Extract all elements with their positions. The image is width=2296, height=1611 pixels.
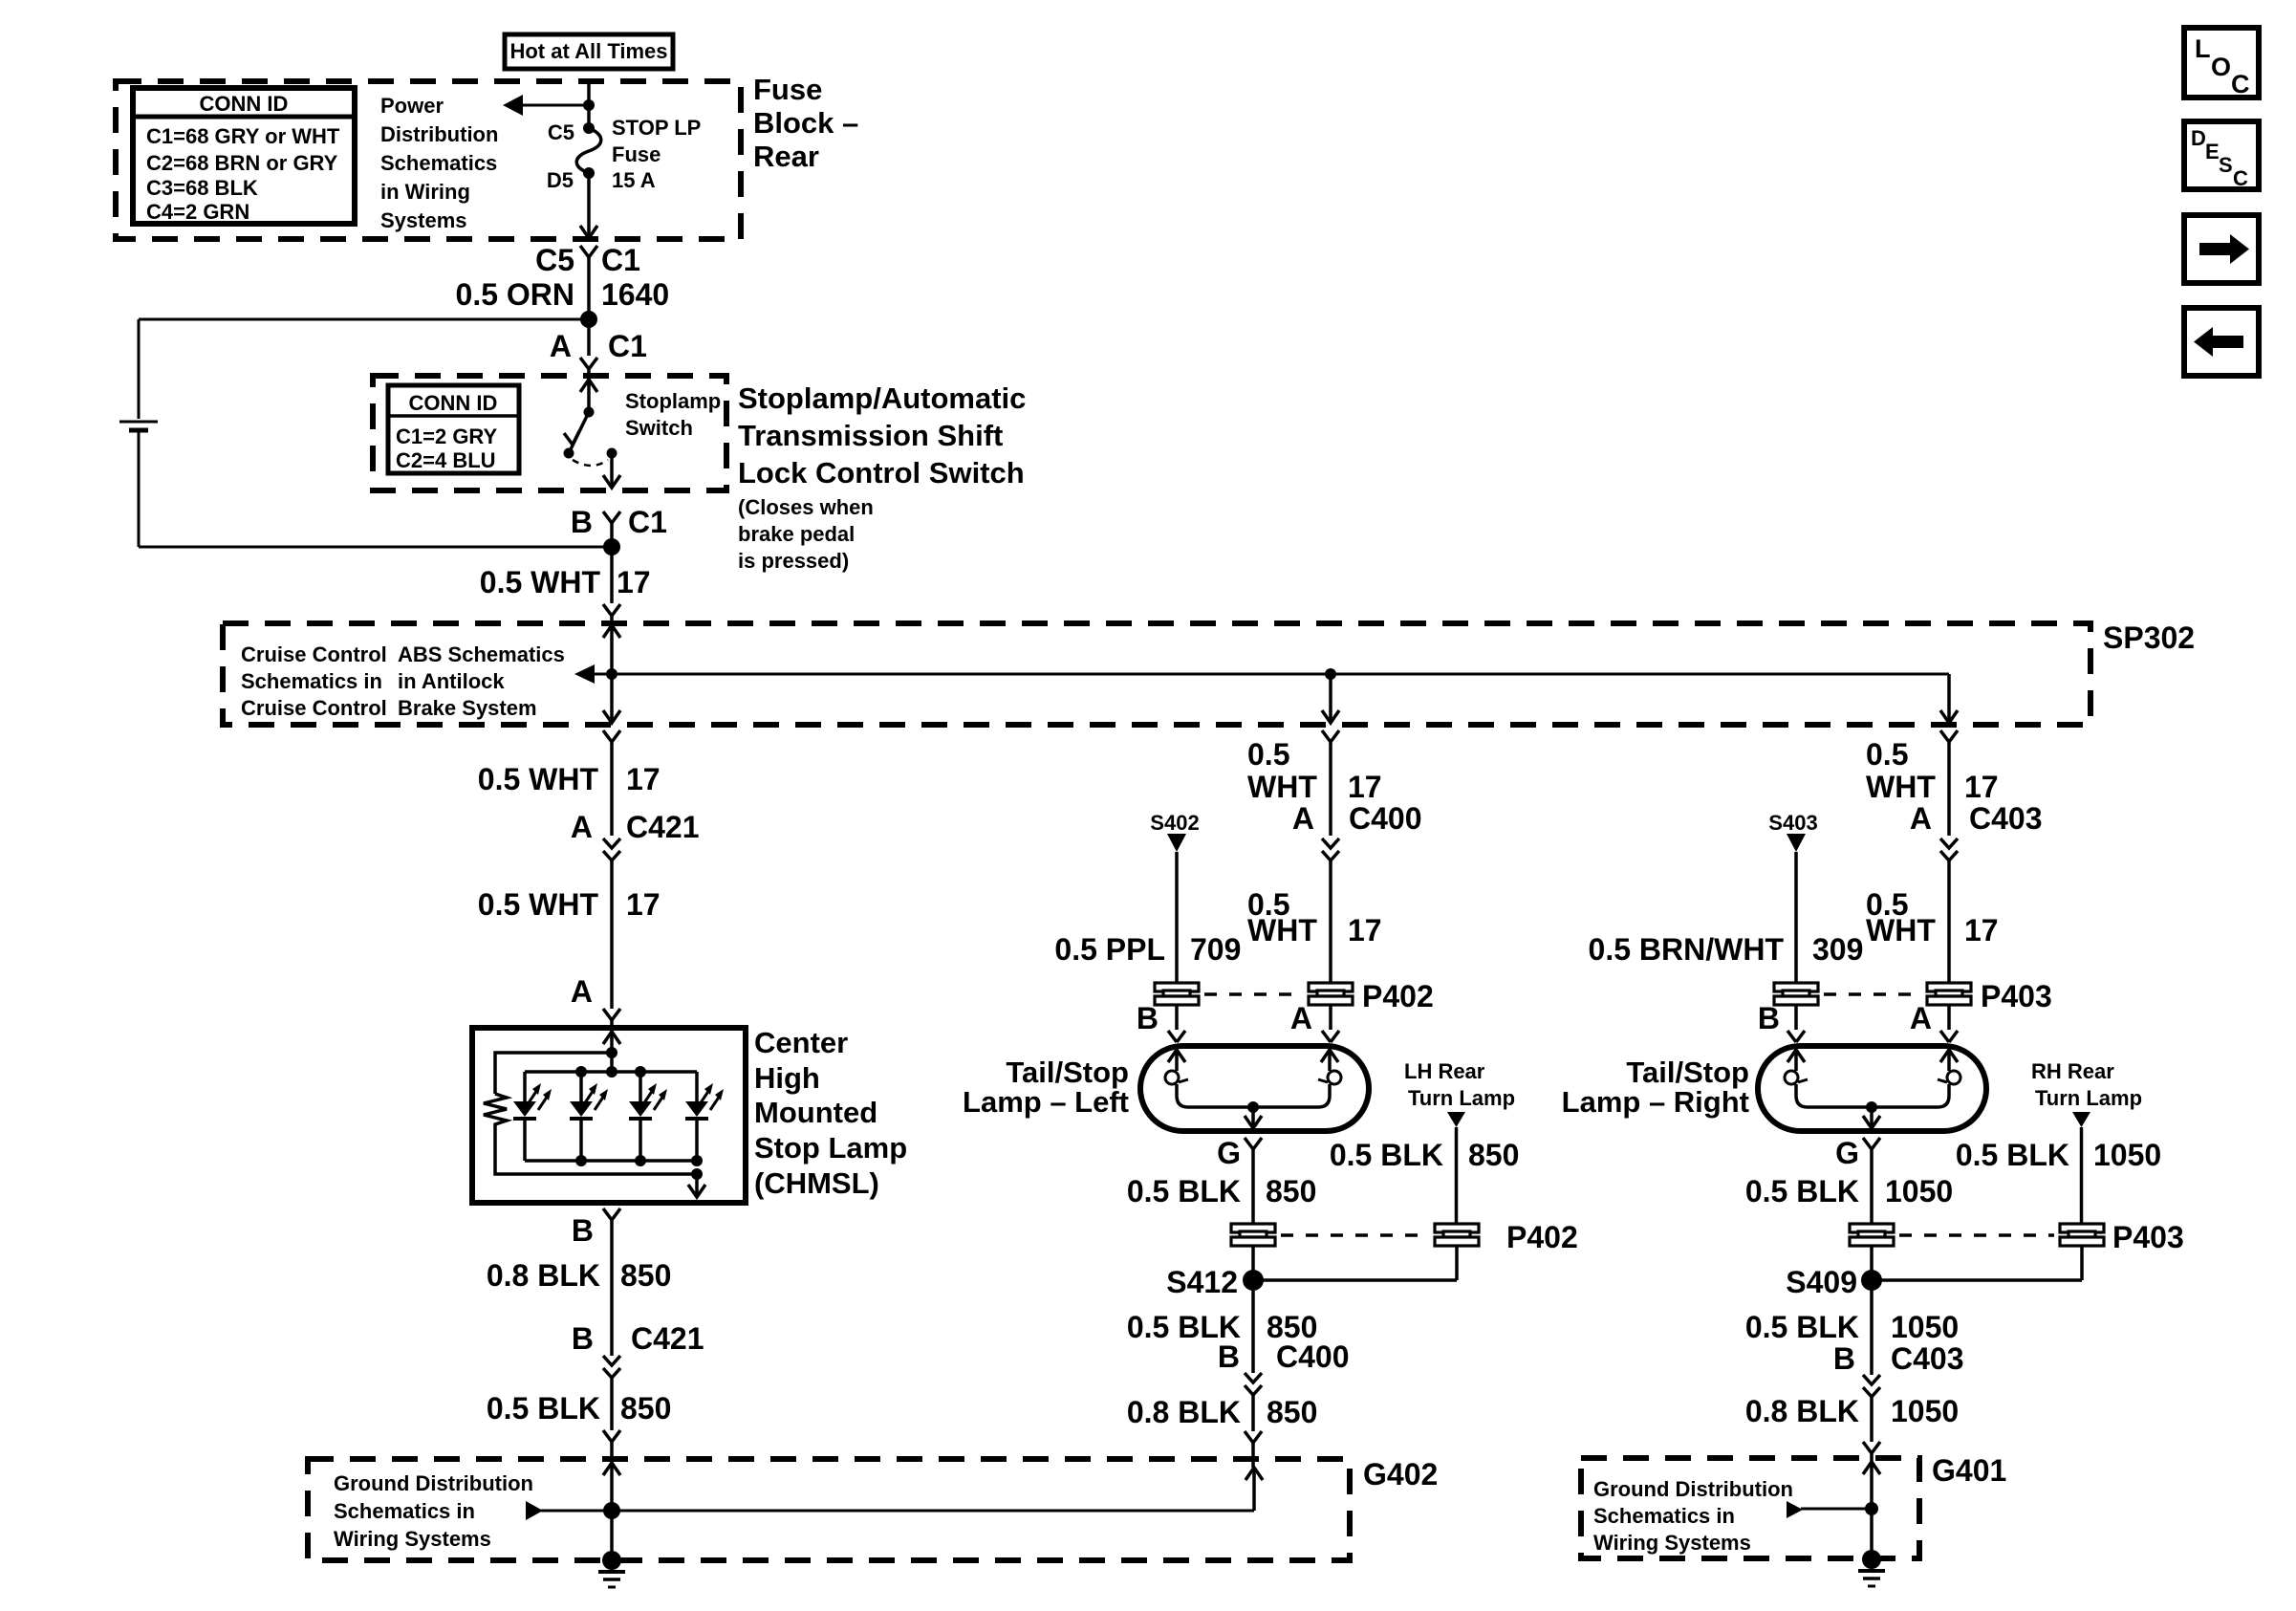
svg-text:0.8 BLK: 0.8 BLK: [487, 1258, 600, 1293]
svg-text:S: S: [2219, 153, 2233, 177]
svg-text:B: B: [572, 1321, 594, 1356]
svg-text:B: B: [1137, 1001, 1159, 1035]
connector below SP302 left: [603, 730, 620, 836]
svg-text:17: 17: [1348, 770, 1382, 804]
nav box DESC: [2184, 121, 2259, 190]
svg-text:L: L: [2195, 34, 2211, 63]
wire label 0.5 BRN/WHT 309: [1589, 932, 1864, 967]
wire A into switch: [587, 319, 591, 356]
svg-text:A: A: [1910, 801, 1932, 836]
svg-text:SP302: SP302: [2103, 620, 2195, 655]
svg-text:0.5 BLK: 0.5 BLK: [487, 1391, 600, 1426]
lamp internal bus right: [1796, 1084, 1949, 1107]
svg-text:C5: C5: [548, 120, 574, 144]
svg-text:0.5: 0.5: [1247, 737, 1289, 772]
node: G401 bus junction: [1865, 1502, 1878, 1515]
svg-text:Schematics in: Schematics in: [334, 1499, 475, 1523]
G401 ground bus: [1787, 1501, 1872, 1518]
label: Ground Distribution Schematics in Wiring Systems (G401): [1593, 1477, 1793, 1555]
svg-text:15 A: 15 A: [612, 168, 656, 192]
svg-text:WHT: WHT: [1866, 770, 1936, 804]
pin A / connector C1: [550, 329, 647, 380]
connector into G401: [1863, 1442, 1880, 1458]
filament A (left lamp): [1318, 1050, 1341, 1084]
svg-text:Turn Lamp: Turn Lamp: [1408, 1086, 1515, 1110]
splice feed LH turn lamp: [1447, 1112, 1465, 1225]
pin B / connector C400 lower: [1218, 1339, 1350, 1431]
svg-text:Cruise Control: Cruise Control: [241, 696, 387, 720]
svg-text:C1=2 GRY: C1=2 GRY: [396, 425, 498, 448]
svg-text:is pressed): is pressed): [738, 549, 849, 573]
svg-text:C403: C403: [1891, 1341, 1964, 1376]
svg-text:C3=68 BLK: C3=68 BLK: [146, 176, 258, 200]
svg-text:(CHMSL): (CHMSL): [754, 1166, 879, 1200]
svg-text:0.5 WHT: 0.5 WHT: [478, 887, 599, 922]
svg-text:D5: D5: [547, 168, 574, 192]
node: SP302 left junction: [606, 668, 617, 680]
filament B (right lamp): [1785, 1050, 1808, 1084]
connector P402 (B half): [1155, 983, 1199, 1005]
svg-text:C1: C1: [628, 505, 667, 539]
connector P402 lower (turn half): [1435, 1224, 1479, 1246]
CHMSL box: [472, 1028, 746, 1203]
svg-text:C4=2 GRN: C4=2 GRN: [146, 200, 249, 224]
svg-text:LH Rear: LH Rear: [1404, 1059, 1485, 1083]
junction: [583, 99, 595, 111]
svg-text:A: A: [571, 810, 593, 844]
label: ABS Schematics in Antilock Brake System: [398, 642, 565, 720]
label: Tail/Stop Lamp - Right: [1562, 1056, 1749, 1119]
svg-text:P402: P402: [1362, 979, 1434, 1013]
wire label 0.8 BLK 1050: [1745, 1394, 1959, 1428]
LED D1: [513, 1072, 552, 1161]
svg-text:1640: 1640: [601, 277, 669, 312]
label: Cruise Control Schematics in Cruise Control: [241, 642, 387, 720]
splice bus wire SP302: [574, 664, 1949, 684]
connector into G402: [603, 1430, 620, 1442]
svg-text:0.8 BLK: 0.8 BLK: [1745, 1394, 1859, 1428]
label: Power Distribution Schematics in Wiring Systems: [380, 94, 498, 232]
svg-text:0.5: 0.5: [1866, 737, 1908, 772]
svg-text:17: 17: [1964, 770, 1999, 804]
svg-text:in Wiring: in Wiring: [380, 180, 470, 204]
CHMSL entry arrow: [603, 1032, 620, 1072]
svg-text:0.5 BRN/WHT: 0.5 BRN/WHT: [1589, 932, 1785, 967]
svg-text:0.5 WHT: 0.5 WHT: [478, 762, 599, 796]
ground distribution box G401: [1581, 1458, 1919, 1558]
wire label 0.5 WHT 17: [478, 762, 661, 796]
node: switch output junction: [603, 538, 620, 555]
svg-text:A: A: [1292, 801, 1314, 836]
svg-text:High: High: [754, 1061, 820, 1095]
svg-text:P402: P402: [1506, 1220, 1578, 1254]
svg-text:1050: 1050: [1891, 1310, 1959, 1344]
svg-text:Fuse: Fuse: [612, 142, 661, 166]
svg-text:C400: C400: [1276, 1339, 1350, 1374]
svg-text:17: 17: [626, 887, 661, 922]
ground distribution box G402: [308, 1459, 1350, 1560]
wire label 0.5 BLK 1050: [1745, 1310, 1959, 1344]
svg-text:in Antilock: in Antilock: [398, 669, 505, 693]
G402 riser from middle branch: [1245, 1468, 1263, 1511]
splice S403: [1768, 811, 1817, 983]
wire label 0.5 BLK 850: [487, 1391, 672, 1426]
wire label 0.5 WHT 17: [1866, 737, 1999, 804]
svg-text:C2=4 BLU: C2=4 BLU: [396, 448, 496, 472]
splice S409: [1786, 1246, 2082, 1375]
svg-text:0.5 BLK: 0.5 BLK: [1956, 1138, 2069, 1172]
svg-text:S412: S412: [1166, 1265, 1238, 1299]
svg-text:17: 17: [1348, 913, 1382, 947]
svg-text:C421: C421: [631, 1321, 704, 1356]
wire label 0.5 WHT 17: [1247, 887, 1382, 947]
svg-text:850: 850: [620, 1258, 671, 1293]
LED D4: [685, 1072, 724, 1161]
svg-text:0.8 BLK: 0.8 BLK: [1127, 1395, 1241, 1429]
label: RH Rear Turn Lamp: [2031, 1059, 2142, 1110]
value: STOP LP Fuse 15 A: [612, 116, 701, 192]
svg-text:Center: Center: [754, 1026, 848, 1059]
lamp internal bus: [1177, 1084, 1330, 1107]
svg-text:Wiring Systems: Wiring Systems: [1593, 1531, 1751, 1555]
P402 mating dash: [1204, 992, 1304, 996]
svg-text:E: E: [2205, 140, 2220, 163]
svg-text:G: G: [1217, 1136, 1241, 1170]
node: right lamp common: [1866, 1101, 1877, 1113]
node: lamp common: [1247, 1101, 1259, 1113]
wire label 0.5 ORN 1640: [456, 277, 670, 312]
svg-text:WHT: WHT: [1247, 770, 1317, 804]
svg-text:P403: P403: [2112, 1220, 2184, 1254]
wire outer loop to resistor: [495, 1053, 612, 1094]
svg-text:C421: C421: [626, 810, 700, 844]
svg-text:C400: C400: [1349, 801, 1422, 836]
wire to shift lock loop: [139, 318, 589, 321]
svg-text:C1: C1: [601, 243, 640, 277]
lamp ground exit arrow: [1245, 1107, 1262, 1128]
node: SP302 middle junction: [1325, 668, 1336, 680]
G401 entry arrow: [1863, 1458, 1880, 1558]
pin B / connector C421 lower: [572, 1321, 704, 1430]
connector below SP302 middle: [1322, 730, 1339, 836]
SP302 middle drop wire: [1322, 674, 1339, 723]
wire label 0.5 BLK 850: [1127, 1174, 1317, 1208]
CHMSL exit wire with arrow: [688, 1174, 705, 1197]
wire label 0.5 PPL 709: [1054, 932, 1241, 967]
svg-text:A: A: [550, 329, 572, 363]
svg-text:G402: G402: [1363, 1457, 1438, 1491]
svg-text:Schematics: Schematics: [380, 151, 497, 175]
svg-text:P403: P403: [1981, 979, 2052, 1013]
svg-text:850: 850: [1468, 1138, 1519, 1172]
svg-text:Hot at All Times: Hot at All Times: [509, 39, 667, 63]
svg-text:17: 17: [626, 762, 661, 796]
SP302 right drop wire: [1940, 674, 1958, 723]
svg-text:Turn Lamp: Turn Lamp: [2035, 1086, 2142, 1110]
wires into lamp: [1137, 1001, 1339, 1042]
svg-text:850: 850: [620, 1391, 671, 1426]
svg-text:C403: C403: [1969, 801, 2043, 836]
resistor R (CHMSL): [484, 1094, 507, 1127]
connector P402 (A half): [1309, 983, 1353, 1005]
svg-text:C2=68 BRN or GRY: C2=68 BRN or GRY: [146, 151, 338, 175]
svg-text:1050: 1050: [2093, 1138, 2161, 1172]
lamp: Tail/Stop Lamp Left (bulb outline): [1140, 1046, 1369, 1131]
svg-text:Systems: Systems: [380, 208, 467, 232]
connector P402 lower (lamp half): [1231, 1224, 1275, 1246]
label: Fuse Block - Rear: [753, 73, 858, 173]
svg-text:0.5 BLK: 0.5 BLK: [1330, 1138, 1443, 1172]
svg-text:WHT: WHT: [1866, 913, 1936, 947]
wire label 0.5 WHT 17: [1247, 737, 1382, 804]
LED top rail: [525, 1070, 697, 1074]
fuse block rear dashed box: [116, 81, 741, 239]
svg-text:Lock Control Switch: Lock Control Switch: [738, 456, 1025, 490]
svg-text:C: C: [2231, 70, 2250, 98]
svg-text:B: B: [1758, 1001, 1780, 1035]
label: Stoplamp/Automatic Transmission Shift Lock Control Switch: [738, 381, 1026, 573]
svg-text:WHT: WHT: [1247, 913, 1317, 947]
svg-text:0.5 WHT: 0.5 WHT: [480, 565, 601, 599]
wire label 0.8 BLK 850: [487, 1258, 672, 1293]
svg-text:Lamp – Right: Lamp – Right: [1562, 1085, 1749, 1119]
svg-text:D: D: [2191, 126, 2206, 150]
svg-text:B: B: [571, 505, 593, 539]
svg-text:STOP LP: STOP LP: [612, 116, 701, 140]
svg-text:G401: G401: [1932, 1453, 2006, 1488]
svg-text:1050: 1050: [1891, 1394, 1959, 1428]
node: G402 bus junction: [603, 1502, 620, 1519]
svg-text:Fuse: Fuse: [753, 73, 822, 106]
splice S402: [1150, 811, 1199, 983]
splice arrows on left leg: [603, 625, 620, 723]
svg-text:C1=68 GRY or WHT: C1=68 GRY or WHT: [146, 124, 340, 148]
svg-text:Schematics in: Schematics in: [1593, 1504, 1735, 1528]
svg-text:ABS Schematics: ABS Schematics: [398, 642, 565, 666]
svg-text:O: O: [2211, 53, 2231, 81]
connector C5|C1: [535, 243, 640, 319]
svg-text:Wiring Systems: Wiring Systems: [334, 1527, 491, 1551]
svg-text:(Closes when: (Closes when: [738, 495, 874, 519]
wires into right lamp: [1758, 1001, 1958, 1042]
splice feed RH turn lamp: [2072, 1112, 2090, 1225]
P403 mating dash lower: [1899, 1233, 2054, 1237]
svg-text:CONN ID: CONN ID: [409, 391, 498, 415]
svg-text:RH Rear: RH Rear: [2031, 1059, 2114, 1083]
wire label 0.5 WHT 17: [1866, 887, 1999, 947]
connector ID table (fuse block): [133, 88, 355, 224]
battery symbol (shift lock feed): [119, 422, 158, 430]
ground G401: [1858, 1550, 1885, 1586]
reference arrow to power distribution: [503, 95, 589, 116]
pin A / connector C403: [1910, 801, 2043, 983]
ground G402: [598, 1551, 625, 1587]
svg-text:Switch: Switch: [625, 416, 693, 440]
nav box LOC: [2184, 28, 2259, 98]
label: Hot at All Times: [505, 34, 673, 69]
pin G / right lamp ground wire: [1835, 1136, 1880, 1225]
svg-text:S409: S409: [1786, 1265, 1857, 1299]
svg-text:Ground Distribution: Ground Distribution: [1593, 1477, 1793, 1501]
svg-text:Stoplamp: Stoplamp: [625, 389, 721, 413]
LED bottom rail: [525, 1159, 697, 1163]
connector P403 lower (turn half): [2060, 1224, 2104, 1246]
svg-text:CONN ID: CONN ID: [200, 92, 289, 116]
node: BTSI tap junction: [580, 311, 597, 328]
connector into G402 middle: [1245, 1431, 1262, 1468]
switch S1 stoplamp switch: [564, 376, 621, 488]
wire resistor to bottom loop: [495, 1127, 697, 1174]
connector P403 lower (lamp half): [1850, 1224, 1894, 1246]
svg-text:Block –: Block –: [753, 106, 858, 140]
wire from battery to switch output node: [139, 432, 612, 547]
wire from hot feed: [587, 81, 591, 128]
pin A / connector C421: [571, 810, 700, 860]
svg-text:Tail/Stop: Tail/Stop: [1626, 1056, 1749, 1089]
label: Center High Mounted Stop Lamp (CHMSL): [754, 1026, 907, 1200]
svg-text:Power: Power: [380, 94, 444, 118]
svg-text:Schematics in: Schematics in: [241, 669, 382, 693]
lamp: Tail/Stop Lamp Right (bulb outline): [1758, 1046, 1986, 1131]
svg-text:C5: C5: [535, 243, 574, 277]
svg-text:A: A: [1290, 1001, 1312, 1035]
svg-text:A: A: [571, 974, 593, 1009]
svg-text:B: B: [1218, 1339, 1240, 1374]
svg-text:Brake System: Brake System: [398, 696, 537, 720]
svg-text:Transmission Shift: Transmission Shift: [738, 419, 1003, 452]
svg-text:brake pedal: brake pedal: [738, 522, 855, 546]
svg-text:Stop Lamp: Stop Lamp: [754, 1131, 907, 1165]
svg-text:309: 309: [1812, 932, 1863, 967]
pin B / connector C1: [571, 505, 667, 547]
svg-text:G: G: [1835, 1136, 1859, 1170]
G402 entry arrow left leg: [603, 1459, 620, 1560]
svg-text:0.5 ORN: 0.5 ORN: [456, 277, 574, 312]
splice pack SP302 dashed box: [223, 623, 2090, 725]
svg-text:Cruise Control: Cruise Control: [241, 642, 387, 666]
svg-text:C1: C1: [608, 329, 647, 363]
node: CHMSL feed junction: [606, 1047, 617, 1058]
G402 ground bus: [526, 1501, 1254, 1520]
wire 0.5 WHT 17: [480, 547, 651, 603]
pin G / lamp ground wire: [1217, 1136, 1262, 1225]
wire label 0.8 BLK 850: [1127, 1395, 1318, 1429]
pin B / connector C403 lower: [1833, 1341, 1964, 1442]
wire label 0.5 BLK 1050 (turn lamp): [1956, 1138, 2161, 1172]
LED D2: [570, 1072, 608, 1161]
wire label 0.5 BLK 1050: [1745, 1174, 1953, 1208]
svg-text:17: 17: [617, 565, 651, 599]
svg-text:0.5 BLK: 0.5 BLK: [1745, 1174, 1859, 1208]
label: Tail/Stop Lamp - Left: [963, 1056, 1129, 1119]
LED D3: [629, 1072, 667, 1161]
connector into splice pack: [603, 604, 620, 723]
nav box right-arrow: [2184, 215, 2259, 283]
svg-text:Distribution: Distribution: [380, 122, 498, 146]
node dots on rails: [575, 1066, 587, 1078]
filament B (left lamp): [1165, 1050, 1188, 1084]
svg-text:A: A: [1910, 1001, 1932, 1035]
wire label 0.5 BLK 850: [1127, 1310, 1318, 1344]
svg-text:850: 850: [1267, 1395, 1317, 1429]
connector P403 (B half): [1774, 983, 1818, 1005]
P402 mating dash lower: [1281, 1233, 1429, 1237]
svg-text:Mounted: Mounted: [754, 1096, 877, 1129]
svg-text:0.5 BLK: 0.5 BLK: [1745, 1310, 1859, 1344]
svg-text:1050: 1050: [1885, 1174, 1953, 1208]
svg-text:Lamp – Left: Lamp – Left: [963, 1085, 1129, 1119]
wire fuse output with arrow: [580, 173, 597, 238]
splice S412: [1166, 1246, 1457, 1373]
svg-text:17: 17: [1964, 913, 1999, 947]
pin A / connector C400: [1292, 801, 1422, 983]
svg-text:Ground Distribution: Ground Distribution: [334, 1471, 533, 1495]
label: Ground Distribution Schematics in Wiring Systems: [334, 1471, 533, 1551]
svg-text:B: B: [572, 1213, 594, 1248]
svg-text:709: 709: [1190, 932, 1241, 967]
svg-text:Tail/Stop: Tail/Stop: [1006, 1056, 1129, 1089]
stoplamp switch dashed box: [373, 376, 726, 490]
nav box left-arrow: [2184, 308, 2259, 376]
wire label 0.5 BLK 850 (turn lamp): [1330, 1138, 1520, 1172]
connector P403 (A half): [1927, 983, 1971, 1005]
label: LH Rear Turn Lamp: [1404, 1059, 1515, 1110]
pin B of CHMSL: [572, 1208, 620, 1356]
svg-text:S403: S403: [1768, 811, 1817, 835]
fuse STOP LP 15A: [576, 122, 601, 179]
svg-text:S402: S402: [1150, 811, 1199, 835]
svg-text:0.5 PPL: 0.5 PPL: [1054, 932, 1165, 967]
filament A (right lamp): [1938, 1050, 1960, 1084]
connector ID table (switch): [388, 385, 519, 473]
svg-text:Stoplamp/Automatic: Stoplamp/Automatic: [738, 381, 1026, 415]
svg-text:B: B: [1833, 1341, 1855, 1376]
lamp ground exit arrow right: [1863, 1107, 1880, 1128]
label: Stoplamp Switch: [625, 389, 721, 440]
svg-text:0.5 BLK: 0.5 BLK: [1127, 1174, 1241, 1208]
P403 mating dash: [1824, 992, 1922, 996]
wire 0.5 WHT 17 to CHMSL: [478, 860, 661, 1009]
pin A of CHMSL: [571, 974, 620, 1032]
connector below SP302 right: [1940, 730, 1958, 836]
svg-text:C: C: [2233, 166, 2248, 190]
svg-text:Rear: Rear: [753, 140, 819, 173]
svg-text:850: 850: [1266, 1174, 1316, 1208]
